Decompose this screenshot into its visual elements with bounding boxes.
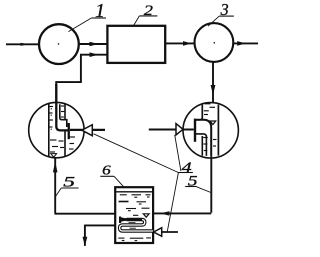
svg-text:3: 3: [220, 0, 229, 19]
svg-text:5: 5: [188, 174, 198, 190]
svg-text:1: 1: [95, 0, 105, 22]
svg-text:6: 6: [102, 164, 111, 179]
svg-text:5: 5: [63, 174, 76, 190]
svg-text:2: 2: [144, 3, 154, 19]
